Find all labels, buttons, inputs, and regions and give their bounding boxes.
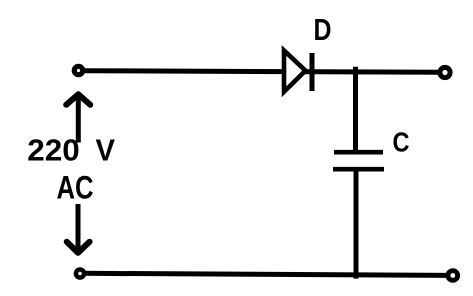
svg-text:AC: AC (57, 169, 94, 205)
svg-text:220: 220 (27, 132, 80, 167)
svg-text:D: D (314, 12, 332, 47)
svg-text:V: V (96, 132, 116, 167)
svg-text:C: C (393, 127, 410, 158)
